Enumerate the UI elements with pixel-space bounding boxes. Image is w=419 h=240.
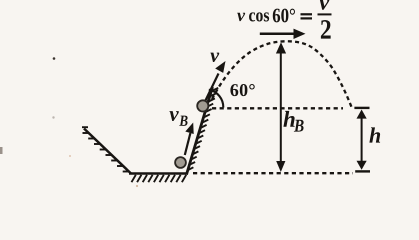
- left slope hatching (horizontal ticks): [82, 127, 129, 171]
- paper background: [0, 0, 419, 188]
- v launch arrow: [204, 61, 226, 104]
- dotted ground line: [193, 172, 353, 174]
- left slope line: [84, 129, 131, 174]
- dotted parabolic trajectory: [212, 41, 352, 107]
- hB double arrow: [276, 42, 286, 172]
- horizontal velocity arrow at apex: [260, 29, 306, 39]
- 60° label: [230, 84, 254, 96]
- upper ball: [197, 100, 208, 111]
- formula v cos 60° = v/2: [237, 0, 331, 39]
- h double arrow with end ticks: [354, 108, 370, 171]
- lower ball: [175, 157, 186, 168]
- incline line: [187, 87, 213, 175]
- h label: [369, 127, 380, 142]
- vB arrow: [185, 123, 194, 156]
- 60° angle arc: [209, 90, 224, 108]
- incline hatching: [187, 88, 218, 171]
- vB label: [169, 111, 187, 126]
- paper specks: [53, 57, 56, 60]
- dotted launch-height line: [212, 107, 343, 109]
- ground hatching: [132, 175, 187, 182]
- hB label: [283, 111, 303, 132]
- ground line: [129, 172, 188, 175]
- v label: [210, 53, 219, 62]
